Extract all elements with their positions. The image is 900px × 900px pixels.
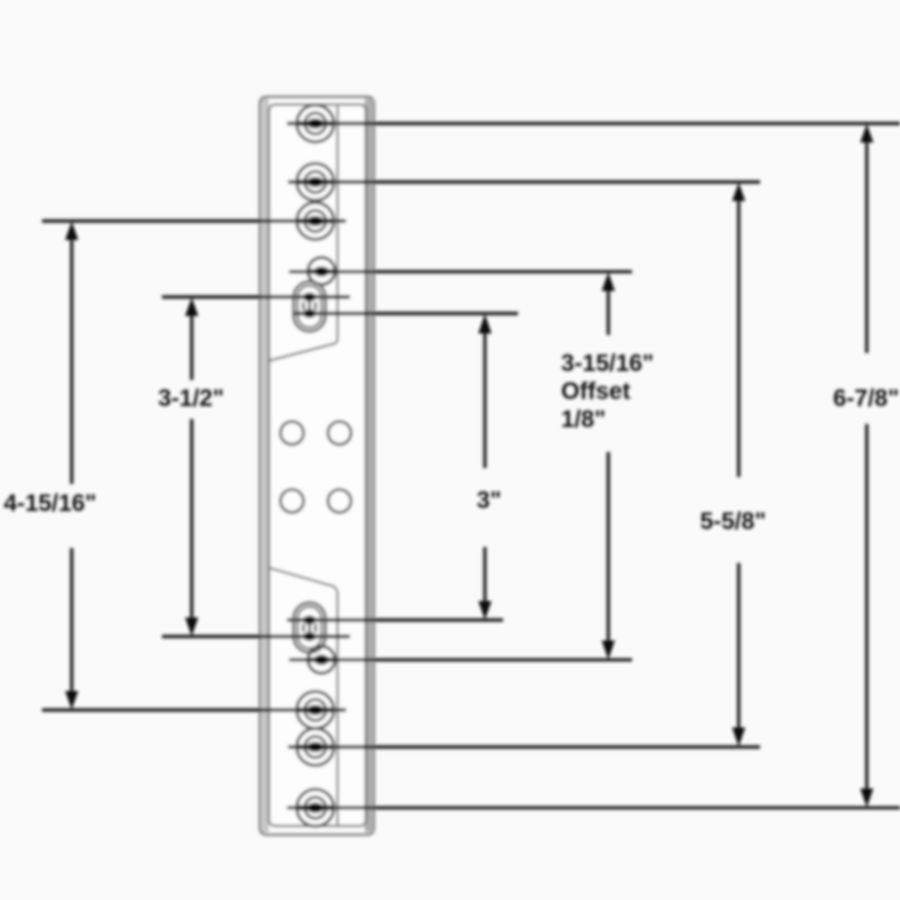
svg-text:Offset: Offset <box>561 378 630 405</box>
dim 3-15/16 vertical <box>602 272 615 659</box>
hole 4 <box>297 692 334 729</box>
dim 5-5/8 vertical <box>732 183 745 747</box>
line hole3 <box>42 219 346 222</box>
slot bottom <box>294 603 326 653</box>
svg-text:5-5/8": 5-5/8" <box>700 508 766 535</box>
line hole6 <box>287 806 900 809</box>
dim 6-7/8 vertical <box>860 124 873 807</box>
inner face outline <box>269 105 366 827</box>
svg-text:3-1/2": 3-1/2" <box>158 385 224 412</box>
dim 3in vertical <box>478 314 491 620</box>
line offset hole top <box>289 270 632 273</box>
svg-text:4-15/16": 4-15/16" <box>4 490 97 517</box>
line slot screw top <box>162 295 350 298</box>
fold line top segment <box>336 106 338 341</box>
dim 3-1/2 vertical <box>185 298 198 637</box>
svg-text:3": 3" <box>477 487 502 514</box>
dim 4-15/16 vertical <box>65 222 78 710</box>
hole 1 <box>297 105 334 142</box>
right gray edge band <box>365 99 375 832</box>
hole 6 <box>297 789 334 826</box>
hole pair upper <box>281 422 352 445</box>
line hole5 <box>288 745 760 748</box>
hole pair lower <box>281 490 352 513</box>
bracket plate outer outline <box>260 97 374 835</box>
svg-text:3-15/16": 3-15/16" <box>561 350 654 377</box>
diagonal cut bottom <box>268 568 338 592</box>
left gray edge band <box>262 99 269 832</box>
hole 2 <box>297 164 334 201</box>
diagonal cut top <box>268 341 338 361</box>
line slot screw bottom <box>162 635 350 638</box>
svg-text:6-7/8": 6-7/8" <box>833 385 899 412</box>
slot top <box>294 282 326 332</box>
line slot bottom cluster 3in <box>287 618 503 621</box>
fold line bottom segment <box>336 591 338 825</box>
svg-text:1/8": 1/8" <box>561 406 606 433</box>
hole 3 <box>297 203 334 240</box>
line offset hole bottom <box>289 658 632 661</box>
line hole1 <box>287 122 900 125</box>
offset hole bottom <box>308 646 335 673</box>
offset hole top <box>308 258 335 285</box>
hole 5 <box>297 729 334 766</box>
line hole4 <box>42 708 346 711</box>
line hole2 <box>288 180 760 183</box>
line slot bottom hole top <box>292 312 518 315</box>
